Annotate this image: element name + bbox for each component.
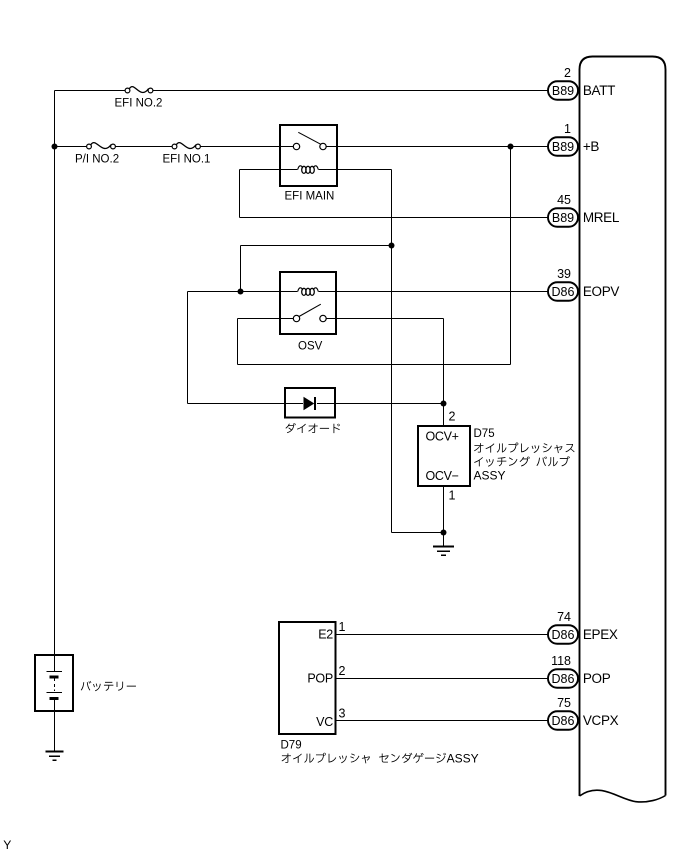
svg-text:POP: POP: [307, 672, 333, 686]
svg-text:OCV+: OCV+: [426, 430, 459, 444]
svg-text:45: 45: [557, 193, 571, 207]
svg-text:39: 39: [557, 267, 571, 281]
svg-text:75: 75: [557, 696, 571, 710]
svg-text:1: 1: [339, 620, 346, 634]
svg-text:P/I NO.2: P/I NO.2: [75, 154, 119, 166]
svg-text:EFI NO.2: EFI NO.2: [115, 98, 163, 110]
svg-text:3: 3: [339, 707, 346, 721]
svg-text:2: 2: [564, 66, 571, 80]
svg-text:D86: D86: [552, 628, 575, 642]
svg-text:2: 2: [339, 664, 346, 678]
svg-text:BATT: BATT: [583, 83, 615, 98]
svg-text:+B: +B: [583, 139, 600, 154]
svg-text:D86: D86: [552, 714, 575, 728]
svg-text:E2: E2: [318, 628, 333, 642]
svg-text:Y: Y: [3, 838, 11, 852]
svg-text:B89: B89: [552, 84, 574, 98]
svg-text:EFI NO.1: EFI NO.1: [163, 154, 211, 166]
svg-text:EPEX: EPEX: [583, 627, 618, 642]
svg-text:EOPV: EOPV: [583, 284, 619, 299]
svg-text:EFI MAIN: EFI MAIN: [285, 191, 335, 203]
svg-text:MREL: MREL: [583, 210, 620, 225]
svg-text:ASSY: ASSY: [474, 469, 506, 483]
svg-text:D86: D86: [552, 672, 575, 686]
svg-text:B89: B89: [552, 211, 574, 225]
svg-text:VC: VC: [316, 715, 333, 729]
svg-text:VCPX: VCPX: [583, 713, 619, 728]
svg-text:D79: D79: [281, 740, 302, 752]
svg-text:B89: B89: [552, 140, 574, 154]
svg-text:1: 1: [449, 489, 456, 503]
svg-text:74: 74: [557, 610, 571, 624]
svg-text:POP: POP: [583, 671, 611, 686]
svg-text:2: 2: [449, 410, 456, 424]
svg-text:OSV: OSV: [298, 341, 323, 353]
svg-text:118: 118: [551, 654, 571, 668]
svg-text:1: 1: [564, 122, 571, 136]
svg-text:ASSY: ASSY: [447, 752, 479, 766]
svg-text:D75: D75: [474, 428, 495, 440]
svg-text:OCV−: OCV−: [426, 469, 459, 483]
svg-text:D86: D86: [552, 285, 575, 299]
